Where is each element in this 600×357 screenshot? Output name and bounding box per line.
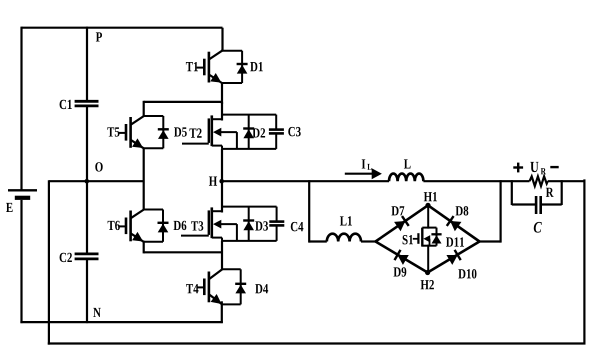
- inductor L: [389, 174, 423, 182]
- label H: [209, 177, 217, 186]
- label N: [93, 308, 101, 317]
- wire left battery leg upper: [20, 27, 22, 191]
- label D9: [394, 267, 407, 276]
- label T6: [108, 221, 120, 230]
- label R: [546, 188, 554, 197]
- wire O column lower: [86, 181, 88, 253]
- diode D4 label: [255, 284, 268, 293]
- wire P column upper: [86, 27, 88, 101]
- transistor T2: [182, 115, 284, 149]
- label T4: [186, 284, 198, 293]
- wire T2 drain column: [221, 102, 223, 121]
- wire T6 bottom connector: [144, 251, 223, 253]
- resistor R: [530, 176, 548, 186]
- wire right leg: [583, 179, 585, 343]
- label H1: [424, 192, 437, 201]
- label UR plus: [513, 163, 523, 173]
- label H2: [421, 280, 434, 289]
- wire T2 source to H: [221, 149, 223, 182]
- capacitor C: [536, 196, 541, 214]
- capacitor C3 label: [288, 127, 300, 136]
- label UR minus: [550, 166, 558, 168]
- label C1: [60, 100, 72, 109]
- label P: [96, 32, 102, 41]
- wire L1 to bridge: [361, 240, 376, 242]
- diode D10: [446, 250, 460, 265]
- wire T1 emitter: [221, 83, 223, 105]
- diode D1 label: [250, 62, 263, 71]
- diode D6 label: [174, 221, 187, 230]
- wire T5 top connector: [144, 101, 223, 103]
- wire O rail: [49, 180, 144, 182]
- wire T5 emitter to T6: [143, 148, 145, 211]
- wire bridge edge D7: [376, 205, 429, 241]
- diode D11: [431, 228, 441, 246]
- wire C2 to N: [86, 259, 88, 323]
- diode D2 label: [252, 128, 265, 137]
- capacitor C4 label: [291, 222, 304, 231]
- wire bridge edge D10: [428, 242, 480, 273]
- wire O drop leg: [48, 180, 50, 344]
- wire T1 collector: [221, 28, 223, 52]
- current arrow I_L: [345, 168, 382, 179]
- label UR: [530, 162, 546, 174]
- wire R to right leg: [548, 180, 586, 182]
- wire T3 source column: [221, 241, 223, 270]
- diode D7: [394, 216, 409, 231]
- label I_L: [362, 159, 372, 169]
- label T3: [191, 221, 203, 230]
- label D7: [391, 206, 404, 215]
- transistor T1: [197, 51, 248, 83]
- wire left battery leg lower: [20, 200, 22, 323]
- wire C1 to O: [86, 106, 88, 181]
- diode D3 label: [255, 221, 268, 230]
- wire T4 emitter to N: [221, 301, 223, 323]
- label O: [95, 162, 102, 171]
- transistor T5: [118, 116, 169, 148]
- label T2: [189, 128, 201, 137]
- wire bridge to output drop: [480, 180, 501, 242]
- diode D9: [395, 250, 409, 265]
- label C2: [60, 253, 72, 262]
- wire bridge edge D8: [428, 205, 480, 241]
- wire L to R: [423, 180, 529, 182]
- node H1: [425, 203, 430, 208]
- wire H1 to S1: [427, 205, 429, 228]
- wire C loop: [512, 180, 562, 205]
- node H: [219, 179, 224, 184]
- wire T6 emitter drop: [143, 241, 145, 254]
- wire L1 lead: [309, 240, 327, 242]
- capacitor C1: [75, 101, 99, 106]
- capacitor C2: [75, 254, 99, 259]
- wire bottom rail: [48, 342, 586, 344]
- transistor T3: [181, 207, 284, 241]
- label C: [534, 222, 542, 233]
- label E: [6, 203, 13, 212]
- transistor T6: [118, 210, 168, 242]
- diode D8: [447, 216, 462, 231]
- wire L1 drop: [308, 180, 310, 242]
- wire top rail P: [22, 27, 223, 29]
- label T1: [186, 62, 198, 71]
- wire rail N: [20, 321, 222, 323]
- wire T5 collector drop: [143, 101, 145, 116]
- label D11: [446, 237, 464, 246]
- wire bridge edge D9: [376, 242, 428, 273]
- battery E: [8, 190, 37, 198]
- label L1: [340, 216, 352, 225]
- diode D5 label: [174, 127, 187, 136]
- label S1: [403, 235, 413, 244]
- transistor T4: [197, 269, 247, 304]
- wire T3 drain column: [221, 180, 223, 212]
- label D10: [458, 269, 476, 278]
- wire H to L: [222, 180, 389, 182]
- wire S1 to H2: [427, 245, 429, 273]
- label L: [404, 159, 411, 168]
- node O: [85, 179, 90, 184]
- inductor L1: [327, 234, 361, 242]
- label T5: [107, 127, 119, 136]
- label D8: [456, 206, 469, 215]
- node H2: [425, 270, 430, 275]
- switch S1: [413, 228, 437, 247]
